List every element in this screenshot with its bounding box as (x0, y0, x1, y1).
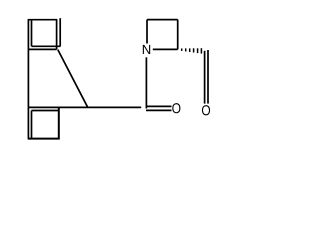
azetidine ring (147, 20, 178, 50)
cubane cage 1 (top-left) (28, 18, 60, 49)
wire N to carbonyl C (vertical) (145, 57, 147, 108)
wire bond cage1 to cage2 (left vertical) (27, 49, 29, 107)
wire bond cage1 to CH (diagonal) (58, 50, 88, 108)
hashed wedge bond (stereo) (182, 48, 202, 53)
atom label O (aldehyde oxygen) (202, 105, 210, 115)
atom label N (azetidine nitrogen) (143, 45, 150, 54)
cubane cage 2 (bottom-left) (28, 107, 60, 139)
atom label O (amide oxygen) (172, 103, 180, 113)
amide C=O double bond (146, 106, 172, 110)
aldehyde C=O double bond (205, 50, 208, 104)
wire chain bond CH to carbonyl (long horizontal, includes cage2 top edge) (28, 106, 141, 108)
